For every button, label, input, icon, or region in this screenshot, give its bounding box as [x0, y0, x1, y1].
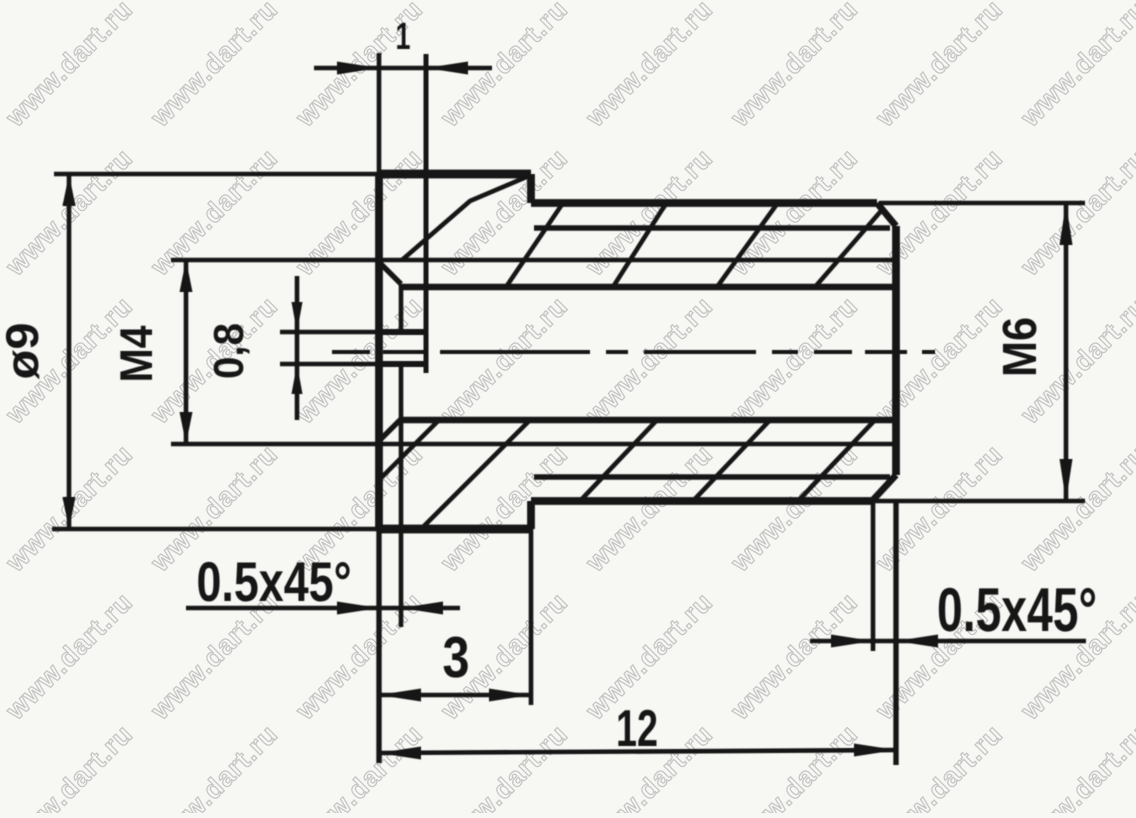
step bottom edge — [527, 501, 535, 529]
body top-right chamfer edge — [877, 203, 896, 226]
dimension 3 flange length with extension line, arrows and label — [529, 529, 534, 705]
dimension 1 (slot depth) with extension lines, arrows and label — [377, 53, 382, 174]
flange left face — [375, 174, 383, 529]
dimension 0.5x45 chamfer right with extension line, arrows and label — [871, 501, 876, 651]
M4 thread major line top (also M4 extension line) — [171, 258, 893, 263]
chamfer base edge upper segment — [399, 284, 404, 332]
body top edge (M6 OD) — [531, 199, 877, 207]
step top edge — [527, 174, 535, 203]
section hatching upper half — [402, 175, 531, 260]
dimension diameter 9 with extension lines, arrows and label — [54, 172, 379, 177]
svg-text:0,8: 0,8 — [205, 323, 252, 379]
dimension M6 thread with extension lines, arrows and label — [879, 201, 1085, 206]
dimension 12 overall length with extension lines, arrows and label — [376, 529, 381, 763]
svg-text:ø9: ø9 — [0, 323, 48, 380]
screwdriver slot top edge — [379, 329, 426, 335]
M6 thread minor line bottom — [534, 474, 890, 479]
dimension 0.8 slot width with extension lines, arrows and label — [280, 330, 379, 335]
hole entrance chamfer bottom edge — [379, 419, 401, 441]
dimension 0.5x45 chamfer left with leader line, arrows and label — [186, 606, 460, 611]
svg-text:3: 3 — [443, 625, 470, 690]
slot bottom face edge / extension line of dimension 1 — [424, 54, 429, 373]
body bottom edge (M6 OD) — [531, 497, 872, 505]
dimension M4 thread with dimension line, arrows and label — [184, 260, 189, 444]
M6 thread minor line top — [534, 225, 890, 230]
svg-text:1: 1 — [396, 16, 411, 58]
screwdriver slot bottom edge — [379, 361, 426, 367]
M4 thread major line bottom (also M4 extension line) — [171, 442, 893, 447]
flange top edge — [379, 170, 531, 179]
body bottom-right chamfer edge — [872, 475, 896, 501]
svg-text:0.5x45°: 0.5x45° — [937, 576, 1097, 645]
svg-text:M6: M6 — [994, 317, 1047, 377]
hole entrance chamfer top edge — [379, 262, 401, 284]
flange bottom edge — [379, 525, 531, 534]
svg-text:0.5x45°: 0.5x45° — [197, 550, 352, 613]
M4 bore line bottom — [401, 417, 893, 424]
chamfer base edge lower segment / 0.5 chamfer extension line — [399, 364, 404, 627]
svg-text:M4: M4 — [110, 325, 162, 382]
svg-text:12: 12 — [616, 700, 658, 758]
section hatching lower half — [381, 421, 438, 478]
centre axis line — [332, 350, 935, 354]
right end face — [892, 226, 900, 475]
M4 bore line top — [401, 284, 893, 291]
